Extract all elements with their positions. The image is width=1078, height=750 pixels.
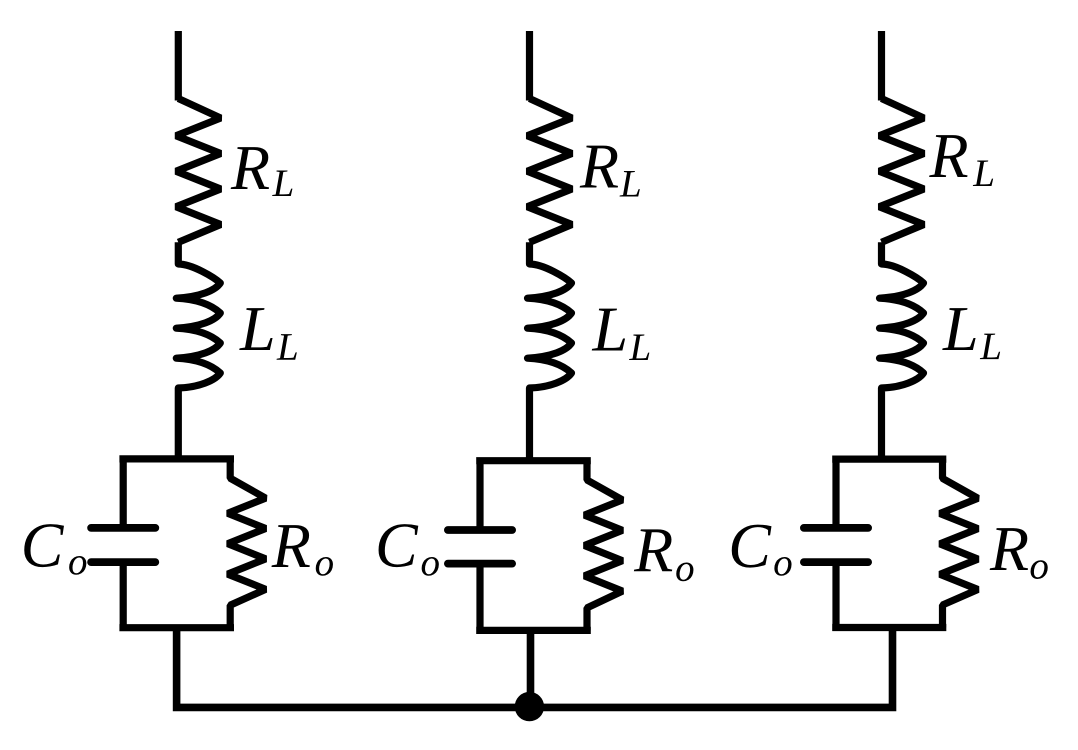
resistor R_L (branch 3) [879,99,924,243]
resistor R_L (branch 1) [176,99,221,243]
label R_o (branch 2) [634,529,694,581]
inductor L_L (branch 3) [880,242,924,459]
resistor R_L (branch 2) [527,99,572,243]
wire: parallel-box frame of branch 3 [832,459,946,627]
resistor R_o (branch 3) [940,459,978,627]
label R_o (branch 1) [271,525,332,576]
label C_o (branch 1) [24,524,86,575]
label R_L (branch 1) [231,147,293,196]
wire: parallel-box frame of branch 1 [119,459,234,628]
label R_o (branch 3) [990,528,1048,579]
label C_o (branch 3) [732,525,792,576]
inductor L_L (branch 1) [176,242,220,459]
capacitor C_o (branch 1) [91,528,155,562]
wire: top lead of branch 1 [175,31,182,101]
label L_L (branch 3) [942,308,1000,359]
wire: parallel-box frame of branch 2 [476,461,591,631]
label L_L (branch 2) [592,309,650,360]
node: common junction dot [515,692,544,721]
resistor R_o (branch 2) [585,461,623,631]
wire: top lead of branch 2 [526,31,533,101]
wire: bottom bus with branch legs [177,628,893,708]
resistor R_o (branch 1) [228,459,266,628]
inductor L_L (branch 2) [528,242,572,460]
label R_L (branch 3) [929,135,993,186]
capacitor C_o (branch 3) [804,528,868,562]
label L_L (branch 1) [239,308,297,360]
wire: top lead of branch 3 [878,31,885,101]
capacitor C_o (branch 2) [448,530,512,564]
label C_o (branch 2) [379,524,439,576]
label R_L (branch 2) [580,146,640,197]
wire: branch 2 leg to node [527,630,535,707]
